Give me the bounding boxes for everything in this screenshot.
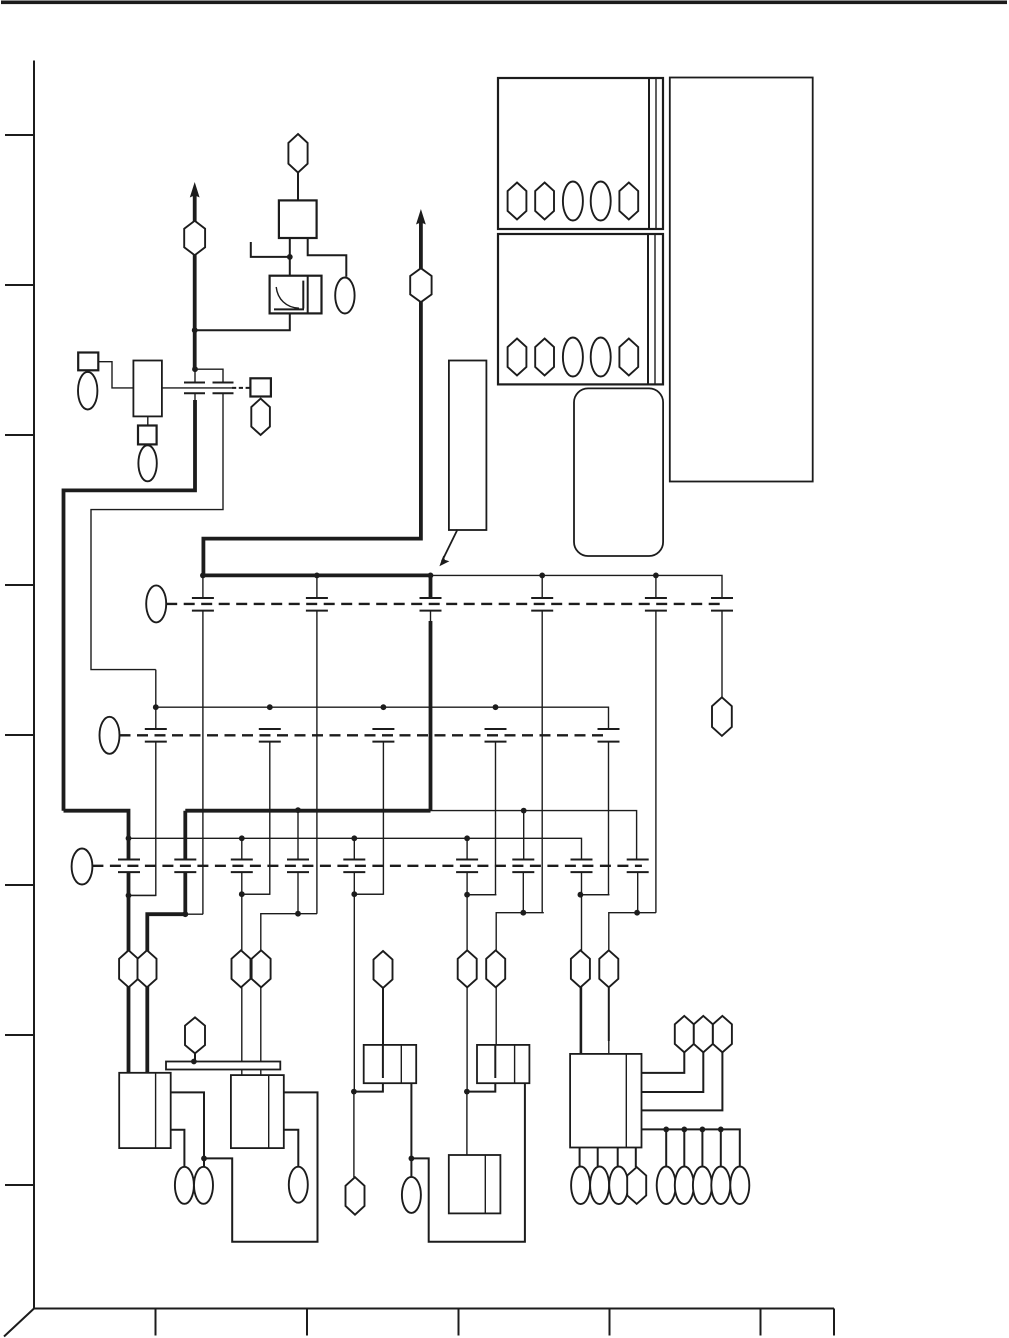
node on lower rail x=241.8 bbox=[239, 835, 245, 841]
pin P9 in U3 bbox=[535, 339, 554, 376]
wire: elbow into N13 bbox=[580, 894, 609, 896]
wire: X19 feed bbox=[466, 838, 468, 859]
jog rail thick left (from S1 run) bbox=[64, 811, 129, 859]
node on U9 gauge rail x=702.4 bbox=[700, 1127, 706, 1133]
wire: tap stub to N2 bbox=[251, 242, 290, 257]
label plate L1 bbox=[449, 361, 487, 531]
node on U9 gauge rail x=684.3 bbox=[681, 1127, 687, 1133]
wire: P24 to U9 bbox=[642, 1052, 704, 1092]
wire: jog N14 to terminal bbox=[609, 913, 656, 951]
jog rail thin extension bbox=[431, 811, 637, 859]
valve V2 partition bbox=[307, 276, 309, 314]
U3 inner partition b bbox=[654, 234, 656, 384]
wire: U7a out to N9 bbox=[354, 1083, 383, 1091]
terminal P23 bbox=[675, 1016, 694, 1052]
U7b inner pin bbox=[494, 1045, 496, 1078]
bus3 terminator gauge G10 bbox=[72, 849, 93, 885]
wire: X11 drop bbox=[354, 742, 383, 895]
wire: X7 drop to node row bbox=[655, 611, 657, 913]
terminal P19 bbox=[571, 950, 590, 987]
wire: riser S1 through connector X1 bbox=[194, 394, 196, 403]
gauge G22 bbox=[609, 1167, 628, 1205]
gauge G3 bbox=[335, 278, 354, 314]
node on lower rail x=128.5 bbox=[126, 835, 132, 841]
wire: X5 thick drop to jog rail bbox=[429, 621, 433, 811]
terminal P11 bbox=[712, 697, 732, 736]
node N16 bbox=[409, 1156, 415, 1162]
wire: jog N7 to terminal bbox=[261, 914, 317, 1075]
node N2 on U1 output bbox=[287, 254, 293, 260]
wire: rail drop b bbox=[683, 1129, 685, 1166]
node on bus2 rail x=383.4 bbox=[381, 704, 387, 710]
node on L2 bbox=[191, 1059, 197, 1065]
connector X19 on bus3 bbox=[456, 860, 478, 873]
wire: P23 to U9 bbox=[642, 1052, 685, 1073]
connector X4 on bus1 bbox=[306, 598, 328, 611]
connector X12 on bus2 bbox=[485, 729, 507, 742]
gauge G13 bbox=[289, 1167, 308, 1203]
wire: X15 thick drop bbox=[183, 872, 187, 914]
node on jog rail x=298 bbox=[295, 807, 301, 813]
wire: thick jog N5 to U6 pin b bbox=[147, 914, 185, 1073]
wire: X18 drop bbox=[353, 872, 355, 1091]
connector X1 on riser S1 bbox=[184, 383, 205, 394]
annotation arrow from L1 to bus1 bbox=[442, 530, 458, 562]
pin G7 in U3 bbox=[591, 338, 611, 377]
U2 inner partition a bbox=[648, 78, 650, 229]
wire: U9 bottom d bbox=[635, 1148, 637, 1168]
U9 partition bbox=[625, 1054, 627, 1148]
connector X15 on bus3 bbox=[174, 860, 196, 873]
stub rail to X3 bbox=[202, 575, 204, 597]
wire: U9 bottom c bbox=[617, 1148, 619, 1167]
valve V1 bbox=[133, 361, 162, 417]
gauge G14 bbox=[402, 1177, 421, 1213]
wire: X20 drop bbox=[522, 872, 524, 912]
wire: X3 drop to node row bbox=[202, 611, 204, 914]
connector X7 on bus1 bbox=[645, 598, 667, 611]
wire: P20 drop tail bbox=[608, 1040, 610, 1054]
bus1 harness (dashed) bbox=[166, 603, 722, 605]
node N5 bbox=[182, 911, 188, 917]
wire: rail drop d bbox=[720, 1129, 722, 1166]
wire: P19 to U9 bbox=[580, 988, 582, 1054]
wire: X9 drop bbox=[129, 742, 156, 896]
terminal P15 bbox=[252, 950, 271, 987]
node N15 bbox=[201, 1156, 207, 1162]
regulator U1 bbox=[279, 200, 317, 238]
wire: riser S1 below node N1 bbox=[194, 369, 196, 382]
wire: X20 feed bbox=[523, 811, 525, 859]
wire: X18 feed bbox=[353, 838, 355, 859]
node N3 on riser S1 bbox=[192, 327, 198, 333]
node on bus2 rail x=155.8 bbox=[153, 704, 159, 710]
node on bus2 rail x=495.5 bbox=[493, 704, 499, 710]
bus2 rail bbox=[156, 707, 609, 729]
gauge G17 bbox=[693, 1167, 712, 1205]
terminal P3 bbox=[288, 134, 307, 173]
node N1 junction on riser S1 bbox=[192, 366, 198, 372]
pin G4 in U2 bbox=[563, 182, 583, 221]
connector X16 on bus3 bbox=[231, 860, 253, 873]
wire: X15 thick feed bbox=[183, 811, 187, 859]
gauge G20 bbox=[571, 1167, 590, 1205]
pin P7 in U2 bbox=[619, 183, 638, 220]
connector X21 on bus3 bbox=[571, 860, 593, 873]
gauge G21 bbox=[590, 1167, 609, 1205]
wire: X14 thick drop to U6 bbox=[127, 872, 131, 1072]
ECU box U3 bbox=[498, 234, 663, 384]
wire: P21 stub bbox=[194, 1053, 196, 1061]
wire: U9 bottom b bbox=[597, 1148, 599, 1167]
wire: X12 drop bbox=[467, 742, 495, 895]
lower rail bbox=[129, 838, 582, 859]
wire: X17 feed bbox=[297, 810, 299, 859]
connector X20 on bus3 bbox=[512, 860, 534, 873]
wire: P16 to U7a bbox=[382, 988, 384, 1045]
terminal P21 bbox=[185, 1017, 205, 1053]
U6 partition bbox=[155, 1073, 157, 1148]
wire: elbow into N4 bbox=[129, 894, 156, 896]
connector X6 on bus1 bbox=[531, 598, 553, 611]
node N13 bbox=[578, 892, 584, 898]
wire: dashed link X2 to B2 bbox=[232, 387, 250, 389]
node on bus1 rail x=542.2 bbox=[539, 573, 545, 579]
node N6 bbox=[239, 891, 245, 897]
jog rail thick right (from X5) bbox=[185, 809, 430, 813]
bus2 terminator gauge G9 bbox=[100, 717, 120, 754]
wire: U6 to gauge G11 bbox=[171, 1130, 185, 1167]
wire: elbow into N6 bbox=[242, 893, 270, 895]
gauge G15 bbox=[657, 1167, 676, 1205]
pilot box B3 bbox=[138, 426, 157, 445]
gauge G12 bbox=[194, 1167, 213, 1204]
wire: U9 gauge rail bbox=[642, 1129, 740, 1166]
wire: N5 tail to X3 drop bbox=[185, 913, 203, 915]
connector X9 on bus2 bbox=[145, 729, 167, 742]
stub rail to X4 bbox=[316, 575, 318, 597]
wire: feed F2 (thick) from arrow to bus1 bbox=[203, 222, 421, 575]
wire: X8 drop to terminal P11 bbox=[721, 611, 723, 698]
unit U7 bbox=[231, 1075, 284, 1148]
wire: V1 output to connector X1 bbox=[162, 387, 232, 389]
node on lower rail x=467.1 bbox=[464, 835, 470, 841]
wire: B1 to valve V1 bbox=[98, 362, 133, 388]
unit U9 bbox=[570, 1054, 641, 1148]
connector X3 on bus1 bbox=[192, 598, 214, 611]
wire: U7a right out bbox=[410, 1083, 412, 1158]
unit U8 bbox=[449, 1155, 501, 1213]
wire: X5 drop below connector bbox=[430, 611, 432, 623]
wire: X19 drop bbox=[466, 872, 468, 1091]
U2 inner partition b bbox=[655, 78, 657, 229]
terminal P14 bbox=[232, 950, 251, 987]
wire: U9 bottom a bbox=[579, 1148, 581, 1167]
pin P6 in U2 bbox=[535, 183, 554, 220]
wire: V2 out to supply riser S1 bbox=[195, 313, 290, 330]
bus3 harness (dashed) bbox=[92, 865, 642, 867]
valve V2 characteristic curve bbox=[276, 287, 299, 308]
node on bus2 rail x=269.8 bbox=[267, 704, 273, 710]
stub rail to X5 (thick) bbox=[429, 575, 433, 597]
wire: X22 drop bbox=[637, 872, 639, 912]
connector X8 on bus1 bbox=[711, 598, 733, 611]
wire: N11 to U8 top bbox=[466, 1092, 468, 1155]
wire: X16 feed bbox=[241, 838, 243, 859]
wire: X6 drop to node row bbox=[541, 611, 543, 913]
terminal P12 bbox=[119, 950, 138, 987]
wire: loop N15-U7 bbox=[204, 1092, 318, 1241]
U7a inner pin bbox=[382, 1045, 384, 1078]
unit U7b bbox=[477, 1045, 529, 1083]
node on U9 gauge rail x=720.8 bbox=[718, 1127, 724, 1133]
node N14 bbox=[634, 910, 640, 916]
node on lower rail x=354.3 bbox=[351, 835, 357, 841]
connector X11 on bus2 bbox=[372, 729, 394, 742]
connector X10 on bus2 bbox=[259, 729, 281, 742]
terminal P17 bbox=[458, 950, 477, 987]
wire: rail drop a bbox=[665, 1129, 667, 1166]
terminal P26 bbox=[627, 1167, 646, 1204]
U7b partition bbox=[514, 1045, 516, 1083]
node N8 bbox=[351, 891, 357, 897]
terminal P2 below B2 bbox=[251, 399, 270, 435]
pilot box B1 bbox=[78, 353, 98, 371]
U7a partition bbox=[400, 1045, 402, 1083]
pin G5 in U2 bbox=[591, 182, 611, 221]
wire: riser S1 thick drop to left run bbox=[64, 400, 196, 811]
node on bus1 rail x=202.9 bbox=[200, 573, 206, 579]
pin G6 in U3 bbox=[563, 338, 583, 377]
wire: X21 drop bbox=[581, 872, 583, 1054]
wire: supply riser S1 (thick) bbox=[193, 195, 197, 369]
wire: rail drop c bbox=[701, 1129, 703, 1166]
bus1 terminator gauge G8 bbox=[146, 585, 166, 622]
bus1 rail thick segment bbox=[203, 574, 431, 578]
stub rail to X6 bbox=[541, 575, 543, 597]
node N9 bbox=[351, 1089, 357, 1095]
U3 inner partition a bbox=[647, 234, 649, 384]
node N11 bbox=[464, 1089, 470, 1095]
node N7 bbox=[295, 911, 301, 917]
connector X22 on bus3 bbox=[627, 860, 649, 873]
wire: elbow into N10 bbox=[467, 894, 496, 896]
bus2 harness (dashed) bbox=[120, 734, 609, 736]
wire: P3 to regulator U1 bbox=[297, 173, 299, 201]
terminal P20 bbox=[599, 950, 618, 987]
connector X18 on bus3 bbox=[343, 860, 365, 873]
pin P5 in U2 bbox=[508, 183, 527, 220]
terminal P25 bbox=[713, 1016, 732, 1052]
terminal P16 bbox=[374, 951, 393, 988]
wire: P20 drop bbox=[608, 988, 610, 1041]
wire: jog N12 to terminal bbox=[496, 913, 544, 1045]
node on bus1 rail x=430.5 bbox=[428, 573, 434, 579]
terminal P4 on feed F2 bbox=[410, 268, 431, 302]
node on jog rail x=523.7 bbox=[521, 808, 527, 814]
wire: X16 drop bbox=[241, 872, 243, 1075]
wire: N15 to gauge G12 bbox=[203, 1158, 205, 1166]
ECU box U2 bbox=[498, 78, 663, 229]
gauge G16 bbox=[675, 1167, 694, 1205]
connector X13 on bus2 bbox=[598, 729, 620, 742]
wire: feed into bus2 rail bbox=[155, 670, 157, 729]
connector X2 on branch bbox=[213, 383, 234, 394]
bus1 rail thin segment bbox=[431, 575, 723, 597]
wire: loop N16 to U7b bbox=[411, 1083, 525, 1242]
wire: X10 drop bbox=[242, 742, 270, 895]
node N4 bbox=[126, 893, 132, 899]
wire: N1 to branch riser bbox=[195, 369, 223, 382]
U8 partition bbox=[484, 1155, 486, 1213]
connector X14 on bus3 bbox=[118, 860, 140, 873]
pin P8 in U3 bbox=[508, 339, 527, 376]
gauge G2 bbox=[138, 445, 156, 481]
valve V2 body bbox=[270, 276, 322, 314]
wire: N9 to terminal P-mid bbox=[353, 1092, 355, 1178]
unit U6 bbox=[119, 1073, 171, 1148]
terminal P24 bbox=[694, 1016, 713, 1052]
link plate L2 bbox=[166, 1062, 280, 1070]
terminal P22 bbox=[346, 1177, 365, 1215]
wire: U6 to G12 riser bbox=[171, 1092, 204, 1158]
node N10 bbox=[464, 892, 470, 898]
wire: X17 drop bbox=[297, 872, 299, 913]
U7 partition bbox=[268, 1075, 270, 1148]
gauge G19 bbox=[730, 1167, 749, 1205]
wire: X13 drop bbox=[580, 742, 608, 895]
gauge G11 bbox=[175, 1167, 194, 1204]
wire: branch through connector X2 down bbox=[91, 394, 223, 670]
wire: P25 to U9 bbox=[642, 1052, 723, 1110]
wire: V1 drain stub bbox=[147, 416, 149, 425]
stub rail to X7 bbox=[655, 575, 657, 597]
arrow A1 (flow up) bbox=[190, 182, 200, 198]
wire: U1 left output down bbox=[289, 238, 291, 276]
pin P10 in U3 bbox=[619, 339, 638, 376]
connector X5 on bus1 bbox=[420, 598, 442, 611]
node on U9 gauge rail x=666.2 bbox=[663, 1127, 669, 1133]
node on bus1 rail x=316.9 bbox=[314, 573, 320, 579]
connector X17 on bus3 bbox=[287, 860, 309, 873]
wire: elbow into N8 bbox=[354, 893, 383, 895]
wire: X4 drop to node row bbox=[316, 611, 318, 914]
panel box U4 bbox=[670, 78, 813, 482]
wire: N16 to gauge G14 bbox=[410, 1158, 412, 1177]
pilot box B2 bbox=[250, 378, 271, 396]
wire: U7b out to N11 bbox=[467, 1083, 495, 1091]
gauge G1 bbox=[78, 372, 97, 410]
terminal P13 bbox=[138, 950, 157, 987]
terminal P18 bbox=[486, 950, 505, 987]
node on bus1 rail x=655.9 bbox=[653, 573, 659, 579]
unit U7a bbox=[364, 1045, 417, 1083]
gauge G18 bbox=[711, 1167, 730, 1205]
wire: U7 to gauge G13 bbox=[284, 1130, 299, 1167]
terminal P1 on riser S1 bbox=[184, 221, 205, 255]
display U5 (rounded) bbox=[574, 388, 663, 556]
arrow A2 (flow up) bbox=[416, 209, 426, 225]
wire: U1 right output to gauge G3 bbox=[308, 238, 347, 277]
node N12 bbox=[520, 910, 526, 916]
